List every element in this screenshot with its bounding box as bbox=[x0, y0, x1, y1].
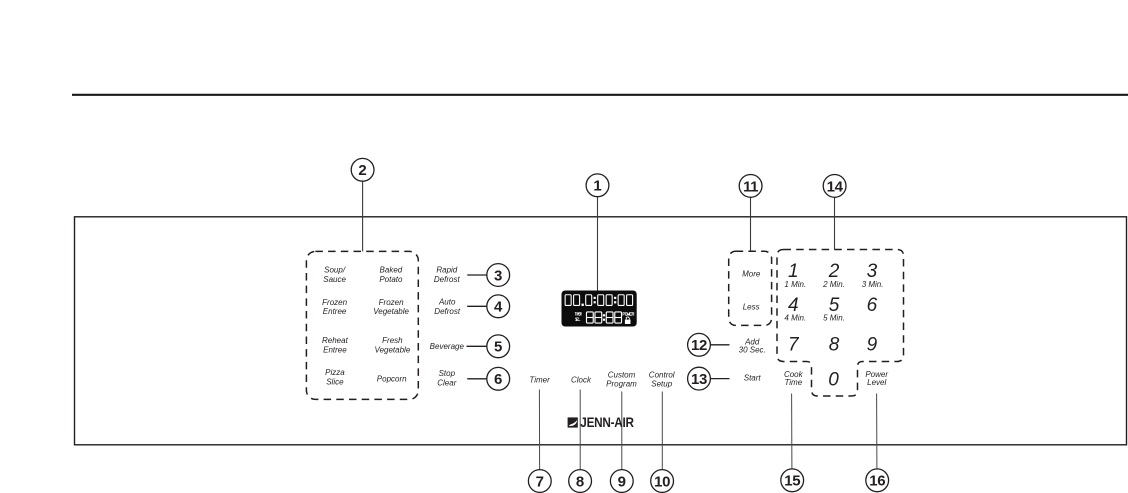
display: black LCD window (callout 1) bbox=[562, 291, 637, 327]
leader line from circle 12 bbox=[711, 344, 730, 346]
svg-text:Reheat: Reheat bbox=[322, 336, 349, 345]
svg-text:13: 13 bbox=[691, 371, 707, 388]
svg-text:6: 6 bbox=[494, 371, 502, 388]
svg-text:Soup/: Soup/ bbox=[324, 266, 346, 275]
callout circle 4 bbox=[487, 295, 510, 318]
leader line to circle 3 bbox=[467, 274, 487, 276]
svg-text:6: 6 bbox=[867, 295, 878, 316]
leader line to circle 5 bbox=[467, 345, 487, 347]
leader line to circle 4 bbox=[467, 305, 487, 307]
svg-text:Entree: Entree bbox=[323, 346, 347, 355]
svg-text:2 Min.: 2 Min. bbox=[822, 280, 845, 289]
leader line circle 14 to keypad box bbox=[834, 197, 836, 249]
svg-text:4: 4 bbox=[494, 299, 503, 316]
svg-text:Defrost: Defrost bbox=[434, 275, 461, 284]
callout circle 16 bbox=[866, 469, 889, 492]
svg-text:9: 9 bbox=[618, 473, 626, 490]
svg-text:Pizza: Pizza bbox=[325, 368, 345, 377]
svg-text:16: 16 bbox=[869, 473, 885, 490]
display POWER indicator bbox=[623, 313, 634, 316]
callout circle 9 bbox=[610, 470, 633, 493]
callout circle 3 bbox=[487, 264, 510, 287]
svg-text:Slice: Slice bbox=[326, 378, 344, 387]
svg-text:Clock: Clock bbox=[571, 376, 592, 385]
callout circle 7 bbox=[528, 470, 551, 493]
svg-text:Rapid: Rapid bbox=[436, 266, 457, 275]
svg-text:Vegetable: Vegetable bbox=[373, 307, 409, 316]
leader line to circle 9 bbox=[621, 392, 623, 470]
display top row digits 00.0:00:00 bbox=[565, 295, 632, 306]
svg-text:1: 1 bbox=[593, 178, 601, 195]
svg-text:JENN-AIR: JENN-AIR bbox=[580, 414, 634, 430]
svg-text:12: 12 bbox=[691, 337, 707, 354]
svg-text:Program: Program bbox=[606, 380, 637, 389]
dashed outline: number keypad with 0 tab (callout 14) bbox=[777, 250, 904, 397]
svg-text:7: 7 bbox=[788, 335, 800, 356]
svg-text:Frozen: Frozen bbox=[379, 298, 404, 307]
svg-text:Frozen: Frozen bbox=[322, 298, 347, 307]
svg-text:Level: Level bbox=[867, 378, 886, 387]
svg-text:Defrost: Defrost bbox=[434, 307, 461, 316]
svg-text:Timer: Timer bbox=[529, 376, 550, 385]
leader line to circle 16 bbox=[876, 394, 878, 469]
callout circle 5 bbox=[487, 335, 510, 358]
svg-text:3: 3 bbox=[867, 261, 878, 282]
svg-text:10: 10 bbox=[654, 473, 670, 490]
svg-text:Sauce: Sauce bbox=[323, 275, 346, 284]
leader line circle 1 to display bbox=[597, 197, 599, 291]
callout circle 6 bbox=[487, 367, 510, 390]
svg-text:More: More bbox=[742, 270, 761, 279]
svg-text:4 Min.: 4 Min. bbox=[784, 314, 806, 323]
leader line circle 11 to More/Less box bbox=[750, 197, 752, 251]
svg-text:8: 8 bbox=[829, 335, 840, 356]
svg-text:Control: Control bbox=[649, 370, 675, 379]
svg-text:Less: Less bbox=[743, 302, 760, 311]
display TIMER indicator bbox=[575, 312, 581, 315]
callout circle 14 bbox=[823, 175, 846, 198]
svg-text:14: 14 bbox=[827, 178, 844, 195]
callout circle 8 bbox=[569, 470, 592, 493]
callout circle 1 bbox=[586, 174, 609, 197]
svg-text:1 Min.: 1 Min. bbox=[784, 280, 806, 289]
svg-text:3 Min.: 3 Min. bbox=[862, 280, 884, 289]
leader line to circle 10 bbox=[661, 392, 663, 470]
dashed box: More/Less pads (callout 11) bbox=[729, 251, 772, 325]
svg-text:Stop: Stop bbox=[439, 369, 456, 378]
leader line to circle 7 bbox=[538, 390, 540, 470]
callout circle 10 bbox=[651, 470, 674, 493]
dashed box: food preset pads (callout 2) bbox=[306, 251, 418, 399]
svg-text:1: 1 bbox=[788, 261, 799, 282]
Jenn-Air logo mark bbox=[568, 417, 578, 427]
svg-text:Time: Time bbox=[784, 378, 802, 387]
svg-text:Entree: Entree bbox=[323, 307, 347, 316]
svg-text:2: 2 bbox=[358, 162, 366, 179]
svg-text:5: 5 bbox=[494, 339, 502, 356]
control panel outline rectangle bbox=[75, 217, 1127, 445]
svg-text:Setup: Setup bbox=[651, 380, 672, 389]
callout circle 13 bbox=[688, 367, 711, 390]
svg-text:0: 0 bbox=[828, 369, 839, 390]
svg-text:30 Sec.: 30 Sec. bbox=[739, 346, 766, 355]
svg-text:Auto: Auto bbox=[438, 298, 456, 307]
svg-text:Baked: Baked bbox=[380, 266, 403, 275]
svg-text:Potato: Potato bbox=[379, 275, 403, 284]
svg-text:Beverage: Beverage bbox=[430, 342, 465, 351]
svg-text:9: 9 bbox=[867, 335, 878, 356]
svg-text:Custom: Custom bbox=[608, 370, 636, 379]
leader line to circle 8 bbox=[579, 390, 581, 470]
leader line to circle 15 bbox=[791, 394, 793, 469]
display SEC. indicator bbox=[575, 318, 580, 321]
svg-text:Start: Start bbox=[744, 374, 762, 383]
svg-text:2: 2 bbox=[828, 261, 840, 282]
callout circle 12 bbox=[688, 333, 711, 356]
callout circle 11 bbox=[739, 175, 762, 198]
svg-text:11: 11 bbox=[743, 178, 758, 195]
svg-text:Popcorn: Popcorn bbox=[377, 374, 407, 383]
svg-text:8: 8 bbox=[576, 473, 584, 490]
leader line circle 2 to preset box bbox=[362, 181, 364, 251]
callout circle 2 bbox=[351, 158, 374, 181]
svg-text:Vegetable: Vegetable bbox=[375, 346, 411, 355]
svg-text:15: 15 bbox=[784, 473, 800, 490]
display lock icon bbox=[625, 317, 631, 324]
leader line from circle 13 bbox=[711, 378, 730, 380]
svg-text:7: 7 bbox=[536, 473, 544, 490]
svg-text:5 Min.: 5 Min. bbox=[823, 314, 845, 323]
callout circle 15 bbox=[781, 469, 804, 492]
top horizontal rule bbox=[72, 94, 1128, 96]
leader line to circle 6 bbox=[467, 378, 487, 380]
svg-text:Clear: Clear bbox=[437, 378, 456, 387]
svg-text:3: 3 bbox=[494, 267, 502, 284]
display second row digits 88:88 bbox=[586, 312, 621, 323]
svg-text:Fresh: Fresh bbox=[382, 336, 403, 345]
